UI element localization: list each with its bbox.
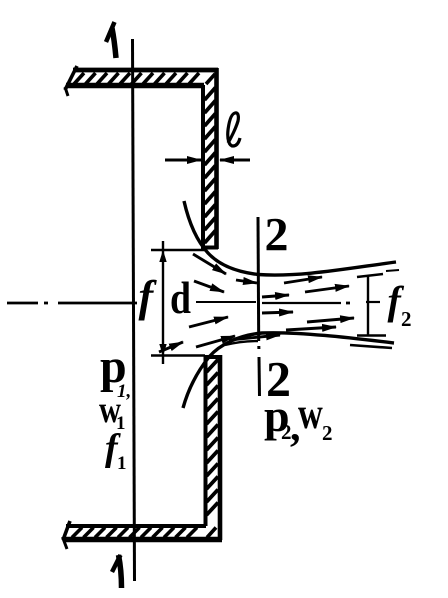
jet flow arrow 5 (307, 318, 354, 322)
label 1 (top) (106, 22, 116, 58)
label p1 w1 f1 (upstream quantities) (99, 340, 131, 474)
jet flow arrow 6 (286, 327, 336, 330)
top wall hatching (74, 73, 215, 84)
jet flow arrow 1 (284, 277, 322, 283)
upper streamline / jet boundary (184, 201, 396, 275)
upper vertical wall hatching (205, 88, 216, 244)
svg-text:w: w (298, 389, 323, 438)
top wall (hatched) (65, 66, 218, 96)
svg-text:1: 1 (117, 453, 127, 474)
upper vertical wall (hatched) (202, 68, 218, 249)
lower vertical wall (hatched) (205, 355, 220, 540)
section line 2-2 (vertical) (258, 217, 260, 396)
dimension f/d bracket: top arrow (159, 241, 166, 262)
lower streamline / jet boundary (183, 333, 394, 408)
dimension f2 bracket: bottom tick (357, 334, 386, 336)
svg-text:d: d (170, 274, 191, 324)
dimension f/d bracket: top tick (151, 249, 207, 251)
lower jet boundary second stroke near section 2 (225, 341, 258, 345)
label 1 (bottom) (112, 555, 122, 588)
jet flow arrow 4 (262, 312, 293, 313)
dimension f/d bracket: bottom arrow (159, 344, 166, 364)
svg-text:2: 2 (265, 209, 289, 262)
dimension f2 bracket: vertical line (367, 275, 369, 335)
section line 1-1 (vertical) (133, 39, 135, 581)
jet flow arrow 3 (262, 295, 289, 297)
converging flow arrow (lower 3) (196, 336, 235, 347)
converging flow arrow (upper 1) (193, 254, 226, 274)
bottom wall (hatched) (63, 521, 223, 549)
converging flow arrow (upper 2) (194, 281, 224, 292)
label p2, w2 (downstream quantities) (264, 389, 333, 450)
label l (script ell) (228, 113, 240, 146)
dimension f/d bracket: bottom tick (151, 354, 205, 356)
label f2 (388, 278, 412, 331)
jet flow arrow 7 (229, 335, 280, 340)
jet flow arrow 2 (305, 286, 349, 292)
centerline (horizontal dash-dot axis) (7, 302, 380, 303)
converging flow arrow (lower 2) (159, 342, 183, 352)
dimension f2 bracket: top right dash (386, 270, 399, 271)
dimension l: left arrow (165, 159, 201, 162)
converging flow arrow (upper 3, near section 2) (236, 280, 257, 283)
bottom wall hatching (72, 528, 216, 538)
dimension f2 bracket: top tick (357, 274, 383, 277)
svg-text:2: 2 (322, 421, 333, 445)
converging flow arrow (lower 1) (189, 317, 228, 327)
svg-text:2: 2 (401, 307, 412, 331)
dimension f/d bracket: vertical line (162, 250, 164, 356)
lower vertical wall hatching (207, 360, 219, 516)
dimension l: right arrow (220, 159, 250, 162)
lower jet boundary double stroke (350, 345, 392, 348)
